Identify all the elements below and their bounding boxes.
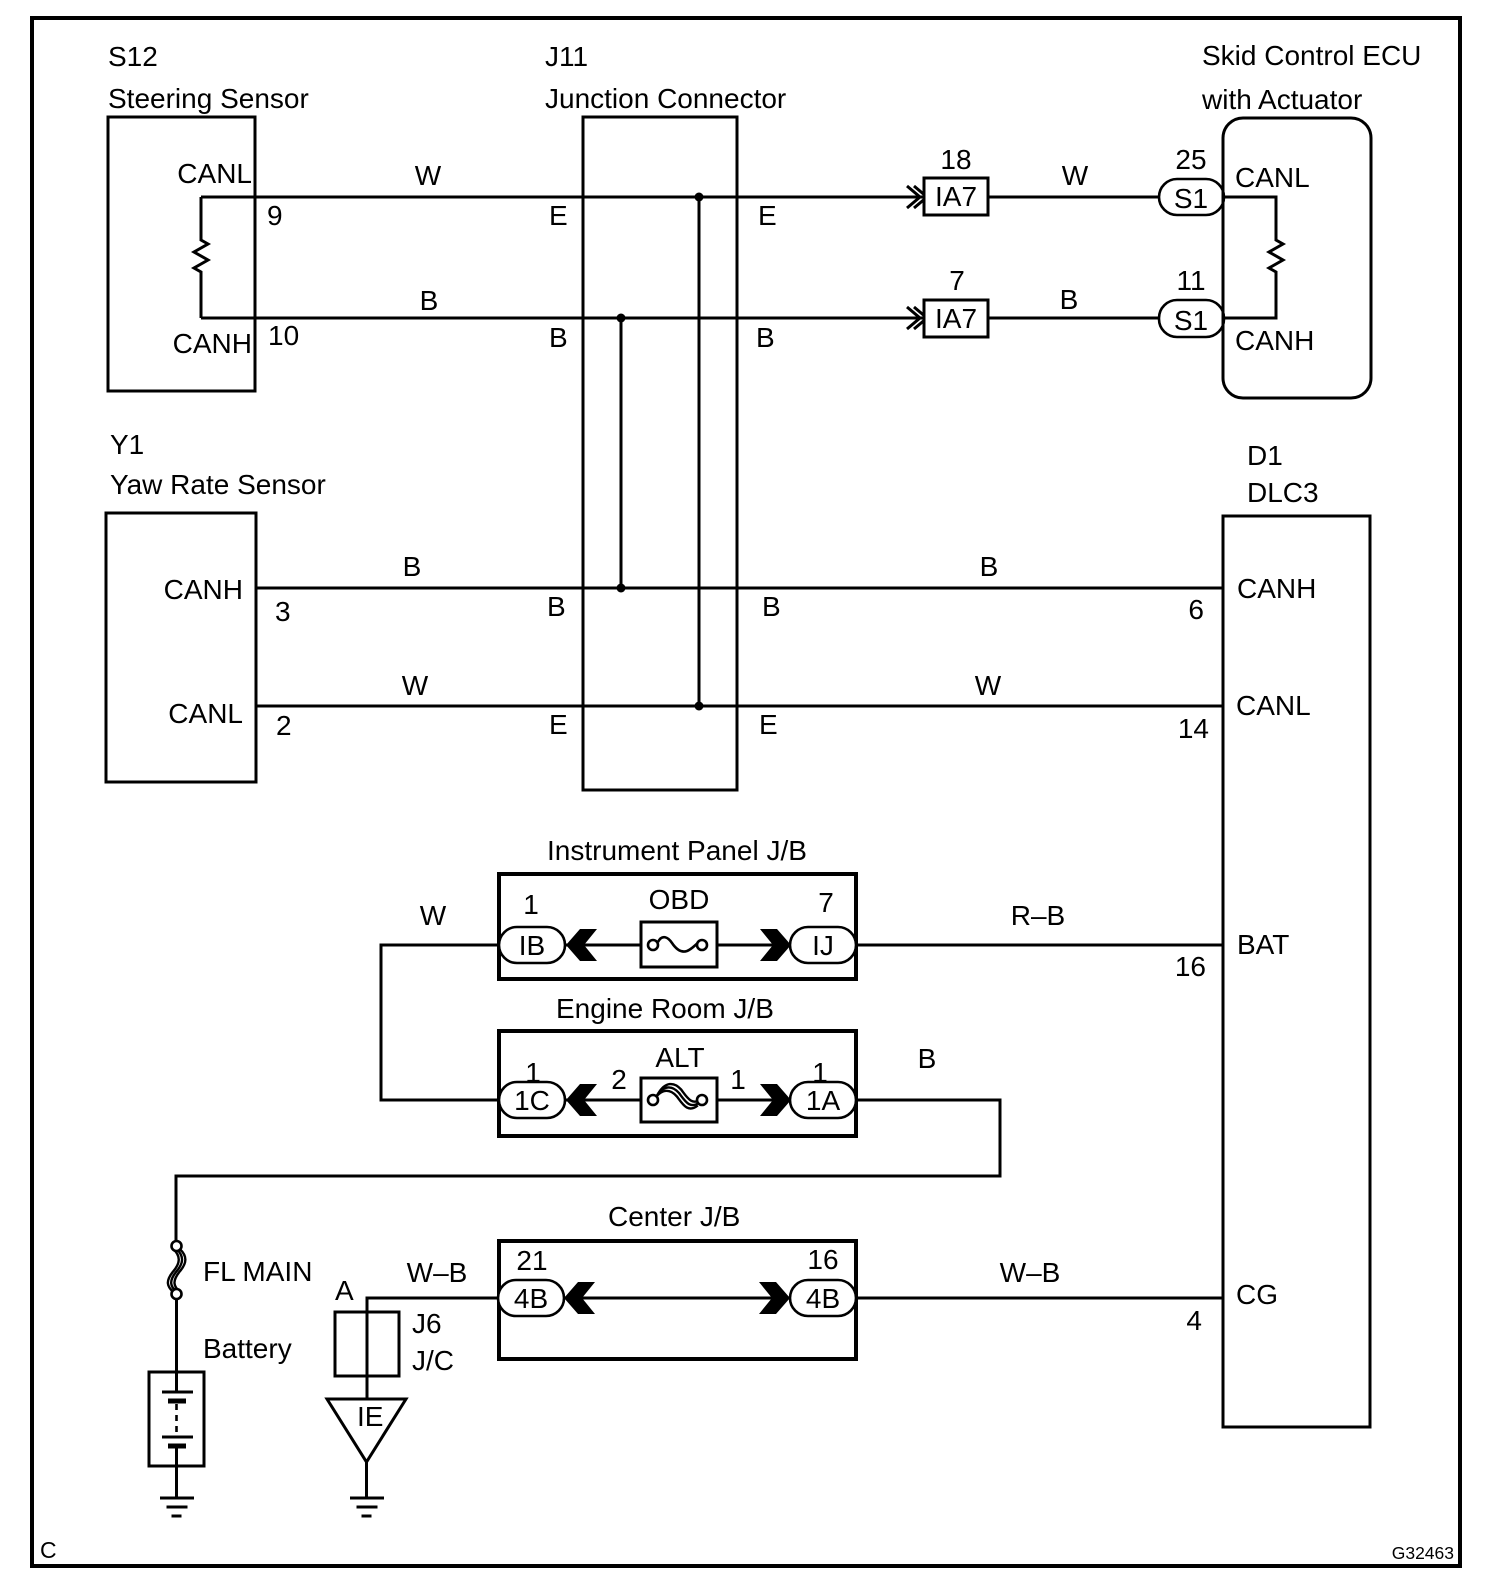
svg-text:W: W — [415, 160, 442, 191]
steering sensor S12 box — [108, 117, 255, 391]
junction dot (W top) — [695, 193, 704, 202]
svg-text:W–B: W–B — [407, 1257, 468, 1288]
svg-text:FL MAIN: FL MAIN — [203, 1256, 312, 1287]
svg-text:10: 10 — [268, 320, 299, 351]
svg-text:25: 25 — [1175, 144, 1206, 175]
svg-text:CG: CG — [1236, 1279, 1278, 1310]
junction dot (B bottom) — [617, 584, 626, 593]
svg-text:Junction Connector: Junction Connector — [545, 83, 786, 114]
svg-text:E: E — [758, 200, 777, 231]
svg-text:B: B — [420, 285, 439, 316]
connector IJ (pin 7) — [790, 927, 856, 963]
wire B (1A to battery feed) — [176, 1100, 1000, 1241]
svg-text:Battery: Battery — [203, 1333, 292, 1364]
svg-text:W: W — [1062, 160, 1089, 191]
svg-text:Engine Room J/B: Engine Room J/B — [556, 993, 774, 1024]
svg-text:S1: S1 — [1174, 305, 1208, 336]
svg-text:Skid Control ECU: Skid Control ECU — [1202, 40, 1421, 71]
svg-text:Yaw Rate Sensor: Yaw Rate Sensor — [110, 469, 326, 500]
svg-text:4B: 4B — [806, 1283, 840, 1314]
connector 1A (pin 1) — [790, 1082, 856, 1118]
center J/B box — [499, 1241, 856, 1359]
connector IA7 (pin 18) — [924, 178, 988, 215]
connector 4B (pin 16) — [790, 1280, 856, 1316]
svg-text:1: 1 — [525, 1057, 541, 1088]
svg-text:Center J/B: Center J/B — [608, 1201, 740, 1232]
arrow (right, IP J/B) — [760, 929, 791, 961]
wire inside J11 (B bus, vertical) — [620, 318, 623, 588]
wire inside ER J/B — [566, 1099, 650, 1102]
resistor R1 (terminating resistor inside S12) — [194, 197, 208, 318]
svg-text:J6: J6 — [412, 1308, 442, 1339]
svg-text:CANL: CANL — [168, 698, 243, 729]
ground triangle IE — [327, 1399, 406, 1462]
svg-text:S1: S1 — [1174, 183, 1208, 214]
connector 1C (pin 1) — [499, 1082, 565, 1118]
ground symbol (IE) — [350, 1497, 384, 1500]
svg-text:B: B — [756, 322, 775, 353]
svg-text:CANL: CANL — [1235, 162, 1310, 193]
svg-text:4: 4 — [1186, 1305, 1202, 1336]
svg-text:9: 9 — [267, 200, 283, 231]
svg-text:W: W — [402, 670, 429, 701]
wire W-B (4B to DLC3 CG) — [856, 1297, 1223, 1300]
svg-text:7: 7 — [949, 265, 965, 296]
svg-text:2: 2 — [611, 1064, 627, 1095]
svg-text:IE: IE — [357, 1401, 383, 1432]
svg-text:C: C — [40, 1537, 57, 1563]
junction connector J6 J/C box — [335, 1312, 399, 1376]
svg-text:CANH: CANH — [1235, 325, 1314, 356]
wire W (IA7 to S1) — [988, 196, 1159, 199]
svg-text:1: 1 — [730, 1064, 746, 1095]
svg-text:Steering Sensor: Steering Sensor — [108, 83, 309, 114]
fusible link circle (bottom) — [172, 1289, 182, 1299]
svg-text:CANH: CANH — [1237, 573, 1316, 604]
svg-text:R–B: R–B — [1011, 900, 1065, 931]
svg-text:2: 2 — [276, 710, 292, 741]
instrument panel J/B box — [499, 874, 856, 979]
connector IA7 (pin 7) — [924, 300, 988, 337]
skid control ECU box — [1223, 118, 1371, 398]
svg-text:B: B — [980, 551, 999, 582]
DLC3 connector D1 box — [1223, 516, 1370, 1427]
wire (IE triangle to ground) — [365, 1462, 368, 1498]
wire inside IP J/B — [566, 944, 650, 947]
svg-text:W–B: W–B — [1000, 1257, 1061, 1288]
fuse OBD — [641, 922, 717, 967]
svg-text:CANH: CANH — [173, 328, 252, 359]
svg-text:J11: J11 — [545, 41, 588, 72]
connector S1 (pin 11) — [1159, 300, 1224, 337]
arrow (right, ER J/B) — [760, 1084, 791, 1116]
connector IB (pin 1) — [499, 927, 565, 963]
wire (battery to ground) — [175, 1446, 178, 1498]
connector 4B (pin 21) — [498, 1280, 564, 1316]
wire CANL W (S12 to IA7) — [201, 196, 924, 199]
svg-text:B: B — [1060, 284, 1079, 315]
svg-text:Instrument Panel J/B: Instrument Panel J/B — [547, 835, 807, 866]
yaw rate sensor Y1 box — [106, 513, 256, 782]
ground symbol (battery) — [160, 1497, 194, 1500]
svg-text:16: 16 — [1175, 951, 1206, 982]
junction connector J11 box — [583, 117, 737, 790]
svg-text:1C: 1C — [514, 1085, 550, 1116]
junction dot (B top) — [617, 314, 626, 323]
svg-text:11: 11 — [1176, 265, 1205, 296]
svg-text:B: B — [547, 591, 566, 622]
wire CANH B (Y1 to DLC3) — [256, 587, 1223, 590]
resistor R2 (terminating resistor inside ECU) — [1223, 197, 1283, 318]
svg-text:3: 3 — [275, 596, 291, 627]
engine room J/B box — [499, 1031, 856, 1136]
svg-text:7: 7 — [818, 887, 834, 918]
connector S1 (pin 25) — [1159, 179, 1224, 215]
arrow (left, Center J/B) — [564, 1282, 595, 1314]
svg-text:4B: 4B — [514, 1283, 548, 1314]
svg-text:D1: D1 — [1247, 440, 1283, 471]
junction dot (W bottom) — [695, 702, 704, 711]
wire CANL W (Y1 to DLC3) — [256, 705, 1223, 708]
svg-text:CANH: CANH — [164, 574, 243, 605]
fusible link FL MAIN — [168, 1249, 179, 1292]
svg-text:E: E — [549, 709, 568, 740]
wire R-B (IJ to DLC3 BAT) — [856, 944, 1223, 947]
svg-text:E: E — [549, 200, 568, 231]
svg-text:IA7: IA7 — [935, 303, 977, 334]
svg-text:IJ: IJ — [812, 930, 834, 961]
wire between 4B connectors — [564, 1297, 790, 1300]
wire B (IA7 to S1) — [988, 317, 1159, 320]
arrow (right, Center J/B) — [759, 1282, 790, 1314]
svg-text:ALT: ALT — [655, 1042, 704, 1073]
svg-text:J/C: J/C — [412, 1345, 454, 1376]
battery — [149, 1372, 204, 1466]
svg-text:B: B — [918, 1043, 937, 1074]
svg-text:Y1: Y1 — [110, 429, 144, 460]
svg-text:S12: S12 — [108, 41, 158, 72]
svg-text:6: 6 — [1188, 594, 1204, 625]
svg-text:CANL: CANL — [1236, 690, 1311, 721]
svg-text:W: W — [420, 900, 447, 931]
svg-text:A: A — [335, 1275, 354, 1306]
wire W (IB to junction at left) — [381, 945, 499, 1100]
svg-text:G32463: G32463 — [1392, 1543, 1454, 1563]
wire (FL MAIN to battery) — [175, 1299, 178, 1372]
svg-text:1: 1 — [523, 889, 539, 920]
connector chevrons into IA7 (bottom) — [907, 307, 920, 329]
svg-text:B: B — [549, 322, 568, 353]
wire CANH B (S12 to IA7) — [201, 317, 924, 320]
svg-text:CANL: CANL — [177, 158, 252, 189]
svg-text:21: 21 — [516, 1245, 547, 1276]
svg-text:IA7: IA7 — [935, 181, 977, 212]
fusible link ALT — [641, 1078, 717, 1122]
svg-text:E: E — [759, 709, 778, 740]
svg-text:with Actuator: with Actuator — [1201, 84, 1362, 115]
connector chevrons into IA7 (top) — [907, 186, 920, 208]
svg-text:W: W — [975, 670, 1002, 701]
arrow (left, ER J/B) — [566, 1084, 597, 1116]
arrow (left, IP J/B) — [566, 929, 597, 961]
svg-text:16: 16 — [807, 1244, 838, 1275]
wire W-B (J6 to 4B) — [367, 1298, 498, 1399]
svg-text:B: B — [403, 551, 422, 582]
svg-text:18: 18 — [940, 144, 971, 175]
svg-text:1: 1 — [812, 1057, 828, 1088]
fusible link circle (top) — [172, 1241, 182, 1251]
svg-text:B: B — [762, 591, 781, 622]
svg-text:DLC3: DLC3 — [1247, 477, 1319, 508]
svg-text:IB: IB — [519, 930, 545, 961]
svg-text:14: 14 — [1178, 713, 1209, 744]
svg-text:1A: 1A — [806, 1085, 841, 1116]
svg-text:BAT: BAT — [1237, 929, 1289, 960]
svg-text:OBD: OBD — [649, 884, 710, 915]
wire inside J11 (W bus, vertical) — [698, 197, 701, 706]
